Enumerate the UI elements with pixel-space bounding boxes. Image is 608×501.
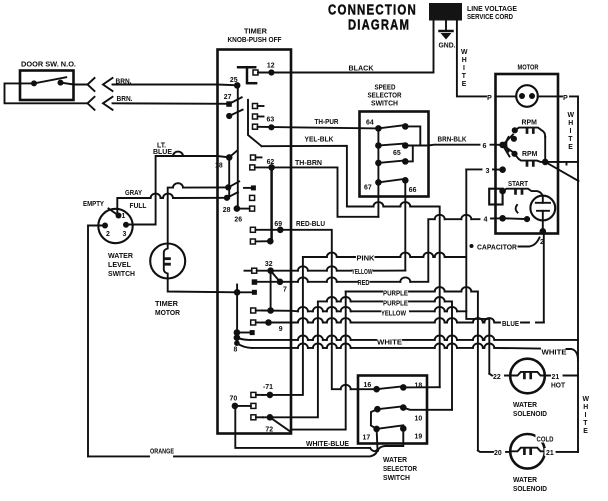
blade y187 [228, 181, 239, 187]
WSS mid-left dot [374, 406, 381, 413]
timer terminal 18 dot [226, 154, 233, 161]
svg-text:W: W [583, 396, 590, 403]
cold solenoid row: 20 lead [478, 451, 510, 452]
white1 hops [298, 335, 308, 339]
dot B3 [402, 158, 409, 165]
tick above dot y292 [236, 285, 238, 290]
svg-text:70: 70 [230, 396, 238, 403]
svg-text:RED: RED [358, 280, 370, 287]
WSS terminal 19 dot [400, 425, 407, 432]
label WATER SOLENOID (cold) [513, 477, 547, 493]
svg-text:21: 21 [552, 374, 560, 381]
WLS terminal 2 [102, 223, 108, 229]
timer terminal 70 dot [232, 403, 239, 410]
timer line bus bar [238, 67, 256, 83]
wire GRAY: WLS terminal 1 to timer (lower) [117, 198, 226, 216]
svg-text:MOTOR: MOTOR [155, 310, 180, 317]
door switch box [20, 71, 74, 101]
wire WHITE 1: timer 8 to right riser [250, 340, 578, 374]
wire 3 row [466, 168, 502, 170]
timer terminal 32 dot [267, 267, 274, 274]
svg-text:TH-PUR: TH-PUR [315, 119, 339, 126]
motor box [496, 74, 559, 234]
timer left column from 25 down [237, 85, 239, 208]
stub 72 [256, 416, 263, 418]
contact square 63 [253, 124, 258, 129]
blade 4 [503, 217, 527, 220]
dot B2 [402, 142, 409, 149]
connector chevron pair row 1 [88, 78, 95, 91]
svg-text:YEL-BLK: YEL-BLK [305, 137, 334, 144]
wire WHITE 2: timer 8 to hot solenoid 21 [252, 348, 578, 360]
svg-text:BLACK: BLACK [349, 66, 374, 73]
wire TH-BRN: timer 62 to A column [291, 167, 378, 216]
svg-text:9: 9 [279, 326, 283, 333]
wire timer motor top to timer (y 187.5) [168, 187, 228, 243]
svg-text:I: I [570, 128, 572, 135]
curve to white wire 2 [237, 343, 252, 348]
WLS terminal digits [106, 213, 127, 238]
timer terminal 63 dot [268, 124, 274, 130]
stub y292.3 [237, 291, 252, 293]
wire RED: timer 7 to motor 4 [291, 218, 503, 281]
hop WSS16 wire over purple1 riser [341, 385, 351, 389]
label LT. BLUE [153, 143, 172, 157]
label SPEED SELECTOR SWITCH [368, 85, 402, 108]
contact square 70 [251, 403, 256, 408]
wire y310.5 row (YELLOW 2 out) [262, 310, 291, 312]
svg-text:7: 7 [283, 287, 287, 294]
ground symbol [440, 21, 453, 40]
wire 62 row (TH-BRN out) [255, 166, 291, 168]
svg-text:63: 63 [267, 117, 275, 124]
timer dot y292.3 [234, 289, 241, 296]
WSS link mid-left to 17 [371, 409, 378, 429]
svg-text:WATER: WATER [108, 253, 133, 260]
cold solenoid right lead [545, 450, 578, 453]
timer terminal 72 dot [267, 414, 274, 421]
svg-text:20: 20 [494, 450, 502, 457]
svg-text:TIMER: TIMER [244, 29, 267, 36]
blade A2-B2 [378, 144, 405, 146]
riser 66 down to yellow wire [404, 180, 406, 270]
timer dot y197.8 [224, 195, 230, 201]
motor terminal 3 dot [499, 166, 506, 173]
wire 9 row (BLUE out) [262, 322, 291, 324]
svg-text:SPEED: SPEED [375, 85, 396, 92]
svg-text:28: 28 [223, 207, 231, 214]
stub y310.5 [256, 310, 262, 312]
blade 32 to 7 [271, 271, 280, 282]
hot solenoid coil [510, 372, 545, 376]
wire RED-BLU: timer 69 down to WSS 16 [291, 230, 377, 389]
svg-text:E: E [462, 81, 467, 88]
hop over lt.blue riser [151, 194, 161, 198]
stub left of 32 square [245, 270, 252, 272]
svg-text:27: 27 [224, 94, 232, 101]
wire junction to white riser [545, 162, 578, 165]
svg-text:1: 1 [122, 213, 126, 220]
contact square y197.9 [250, 195, 255, 200]
WSS blade mid [377, 406, 403, 409]
timer terminal 25 dot [234, 82, 241, 89]
svg-text:16: 16 [364, 382, 372, 389]
svg-text:26: 26 [234, 217, 242, 224]
diagonal junction to riser [545, 162, 578, 181]
svg-text:SOLENOID: SOLENOID [513, 486, 547, 493]
winding junction dot [542, 159, 549, 166]
svg-text:W: W [568, 112, 575, 119]
contact square y281.8 (filled) [252, 279, 258, 285]
svg-text:W: W [461, 49, 468, 56]
connector chevron pair row 2 [88, 97, 95, 110]
svg-text:CAPACITOR: CAPACITOR [477, 245, 517, 252]
svg-text:FULL: FULL [130, 203, 147, 210]
svg-text:18: 18 [415, 383, 423, 390]
contact square y292.3 (filled) [252, 290, 257, 295]
WSS blade 16-18 [377, 386, 404, 389]
timer inner column B (to yel-blk diagonal) [248, 100, 262, 146]
dot B1 [402, 123, 409, 130]
svg-text:BLUE: BLUE [153, 149, 172, 156]
WLS terminal 3 [123, 222, 129, 228]
stub y157 [256, 156, 262, 158]
svg-text:10: 10 [415, 416, 423, 423]
stub y208.6 [240, 208, 250, 210]
svg-text:LINE VOLTAGE: LINE VOLTAGE [467, 6, 517, 13]
start winding coil [503, 189, 543, 197]
svg-text:RPM: RPM [522, 120, 538, 127]
thermal protector circle [516, 85, 538, 107]
water level switch body [98, 209, 132, 243]
blade A3-B3 [378, 160, 405, 163]
wire 69 row (RED-BLU out) [255, 229, 291, 231]
svg-text:BRN.: BRN. [117, 96, 133, 103]
svg-text:72: 72 [265, 427, 273, 434]
wire 63 row (TH-PUR out) [258, 126, 292, 129]
label COLD [536, 435, 555, 444]
svg-text:PURPLE: PURPLE [383, 291, 408, 298]
svg-text:SWITCH: SWITCH [108, 271, 135, 278]
svg-text:P: P [563, 93, 568, 102]
wire 7 row (RED out) [257, 281, 291, 283]
timer dot at y116 [226, 113, 232, 119]
stub 71 [256, 394, 263, 396]
label WATER LEVEL SWITCH [108, 253, 135, 278]
timer dot y337.7 [234, 334, 241, 341]
stub y322.5 [256, 322, 262, 324]
wire PURPLE 2: 72 riser to WSS mid riser [318, 301, 452, 409]
speed selector A column [377, 128, 379, 182]
svg-text:-71: -71 [263, 384, 273, 391]
svg-text:MOTOR: MOTOR [518, 65, 539, 72]
service cord plug (black block) [429, 3, 462, 21]
riser A column down through box [377, 182, 379, 216]
column 62 down [270, 167, 273, 241]
timer dot y343.5 [234, 340, 240, 346]
wire 72 blade path to purple1 riser [291, 292, 346, 432]
contact square y322.5 [251, 320, 256, 325]
door switch contact left [31, 80, 37, 86]
svg-text:DOOR SW. N.O.: DOOR SW. N.O. [21, 62, 76, 69]
contact square y241.5 [250, 239, 255, 244]
centrifugal actuator rect [489, 189, 502, 205]
centrifugal switch blades [503, 135, 514, 157]
contact square 71 [251, 392, 256, 397]
svg-text:21: 21 [546, 450, 554, 457]
svg-text:19: 19 [415, 434, 423, 441]
dot A4 (67) [375, 179, 382, 186]
svg-text:8: 8 [234, 347, 238, 354]
blade 27 [229, 97, 242, 104]
svg-text:SELECTOR: SELECTOR [383, 466, 417, 473]
svg-text:WATER: WATER [383, 457, 407, 464]
svg-text:SOLENOID: SOLENOID [513, 411, 547, 418]
contact square 72 [251, 415, 256, 420]
svg-text:BRN-BLK: BRN-BLK [438, 137, 467, 144]
timer dot y332.5 [234, 329, 241, 336]
purple2 hops [327, 297, 337, 301]
svg-text:66: 66 [409, 187, 417, 194]
column 32 down [270, 271, 272, 311]
timer contact square 12 [253, 70, 258, 75]
wire TH-PUR: timer 63 to 64 [291, 127, 378, 128]
wire y241.5 row [255, 240, 270, 242]
capacitor circle [530, 196, 555, 221]
svg-text:65: 65 [393, 150, 401, 157]
contact square y332.5 (filled) [250, 330, 255, 335]
svg-text:TH-BRN: TH-BRN [295, 160, 322, 167]
svg-text:SWITCH: SWITCH [383, 475, 410, 482]
svg-text:HOT: HOT [551, 383, 566, 390]
contact square 62 [250, 165, 255, 170]
blade 4 end dot [524, 216, 530, 222]
wire 70 down to white-blue [235, 406, 370, 448]
terminal 64 dot [375, 125, 382, 132]
stub y106 [258, 105, 264, 107]
svg-text:EMPTY: EMPTY [83, 201, 104, 208]
svg-text:BRN.: BRN. [116, 79, 132, 86]
capacitor plates [536, 203, 550, 211]
wire BRN. row 1 to timer 25 [113, 84, 238, 87]
svg-text:P: P [487, 93, 492, 102]
column 18 down [228, 157, 230, 198]
svg-text:SERVICE CORD: SERVICE CORD [467, 14, 513, 21]
stub 70 [235, 405, 251, 407]
svg-text:WATER: WATER [513, 402, 537, 409]
svg-text:WATER: WATER [513, 477, 537, 484]
blade 64 [378, 125, 405, 128]
svg-text:I: I [585, 412, 587, 419]
wire ORANGE: WLS 2 to water selector [88, 449, 378, 456]
lower winding coil [515, 154, 546, 162]
dot A3 [375, 160, 382, 167]
svg-text:64: 64 [366, 120, 374, 127]
white2 hops [298, 343, 308, 347]
wire WLS terminal 2 to orange run [88, 226, 105, 457]
timer dot y310.5 [267, 307, 274, 314]
timer terminal 7 dot [277, 279, 284, 286]
svg-text:WHITE-BLUE: WHITE-BLUE [306, 441, 349, 448]
door switch blade [34, 77, 66, 83]
hop yel-blk over 66 riser [400, 202, 410, 206]
blade 18 [229, 151, 237, 158]
wire timer motor bottom to timer contact [168, 279, 237, 293]
svg-text:WHITE: WHITE [542, 350, 567, 357]
timer terminal 12 dot [268, 69, 274, 75]
WSS terminal 18 dot [400, 384, 407, 391]
cold solenoid circle [510, 434, 545, 469]
timer contact square 27 (filled) [226, 101, 232, 107]
blade y197.8 [227, 192, 238, 198]
timer terminal 62 dot [268, 164, 275, 171]
wire WSS 18 out to yel-blk riser [403, 386, 439, 388]
speed selector box [360, 112, 429, 197]
dot B4 (66) [402, 177, 409, 184]
wire BLUE: timer 9 to motor 2 riser [291, 322, 544, 324]
svg-text:6: 6 [483, 141, 487, 150]
svg-text:SWITCH: SWITCH [371, 101, 398, 108]
svg-text:BLUE: BLUE [502, 321, 519, 328]
hot solenoid row: 22 lead [489, 374, 510, 376]
WSS terminal 17 dot [373, 426, 380, 433]
stub y332.5 [237, 332, 250, 334]
svg-text:H: H [568, 120, 573, 127]
wire WHITE-BLUE dip to WSS 17 [370, 448, 378, 451]
contact square 69 [250, 227, 255, 232]
svg-text:E: E [583, 428, 588, 435]
connector bump on 187 wire [173, 183, 183, 187]
connector bump on LT.BLUE wire [173, 152, 183, 156]
upper winding right link down to junction [544, 137, 546, 162]
svg-text:12: 12 [267, 63, 275, 70]
svg-text:GRAY: GRAY [125, 190, 142, 197]
timer motor body [150, 244, 185, 279]
contact square y116.5 [253, 114, 258, 119]
WSS blade 17-19 [377, 425, 404, 429]
wire WSS mid out to purple2 riser [403, 408, 452, 410]
wire door switch right to connector [61, 83, 88, 85]
stub y187.9 [244, 187, 251, 189]
svg-text:LEVEL: LEVEL [108, 262, 131, 269]
svg-text:E: E [568, 144, 573, 151]
WLS blade from terminal 1 [109, 209, 119, 216]
capacitor bottom terminal dot [540, 228, 547, 235]
blade 72 to corner [270, 417, 291, 432]
yellow2 hops [298, 307, 308, 311]
svg-text:WHITE: WHITE [377, 339, 402, 346]
label WHITE (vertical, service) [461, 49, 468, 88]
svg-text:ORANGE: ORANGE [150, 449, 174, 456]
WSS mid-right dot [400, 404, 407, 411]
blade 4 hook [516, 205, 518, 213]
label LINE VOLTAGE SERVICE CORD [467, 6, 517, 21]
wire 32 row (YELLOW out) [257, 270, 291, 272]
upper winding coil [515, 128, 545, 137]
label WHITE (vertical, solenoid right) [583, 396, 590, 435]
timer motor coil [164, 244, 168, 279]
dot A2 [375, 142, 382, 149]
svg-text:YELLOW: YELLOW [352, 269, 373, 276]
purple1 hops [435, 287, 445, 291]
stub y116.5 [258, 116, 264, 118]
blade 67 [378, 179, 405, 183]
wire BRN-BLK: speed selector out to motor 6 [405, 144, 502, 147]
svg-text:18: 18 [215, 163, 223, 170]
wire WHITE: plug down to motor P [457, 21, 486, 96]
capacitor stub bottom [542, 211, 544, 232]
svg-text:RED-BLU: RED-BLU [296, 221, 325, 228]
svg-text:PINK: PINK [357, 256, 375, 263]
svg-text:GND.: GND. [439, 41, 456, 50]
centrifugal switch arc [506, 137, 508, 152]
thermal protector dots [519, 93, 525, 99]
svg-text:H: H [462, 57, 467, 64]
timer box [218, 50, 292, 434]
wire YELLOW 2: timer to hot solenoid riser [291, 311, 489, 374]
lower winding left dot [511, 151, 517, 157]
motor terminal 6 dot [499, 142, 506, 149]
label TIMER KNOB-PUSH OFF [228, 29, 282, 45]
contact square y310.5 [251, 308, 256, 313]
svg-text:17: 17 [363, 435, 371, 442]
wire YEL-BLK: timer to motor-18 riser [262, 146, 440, 387]
white riser solenoid section [577, 376, 579, 452]
pink hops [327, 253, 337, 257]
svg-text:I: I [463, 65, 465, 72]
label TIMER MOTOR [155, 301, 180, 317]
timer dot y187.4 [225, 184, 231, 190]
svg-text:3: 3 [486, 166, 490, 175]
blue hops [298, 318, 308, 322]
wire door switch loop left side [5, 83, 88, 103]
label CAPACITOR with bullet [470, 238, 540, 252]
wire BRN. row 2 to timer 27 [113, 102, 229, 105]
red hops [298, 277, 308, 281]
wire 12 row [258, 72, 291, 74]
svg-text:CONNECTION: CONNECTION [328, 3, 417, 19]
title CONNECTION DIAGRAM [328, 3, 417, 34]
WSS terminal 16 dot [373, 386, 380, 393]
label WATER SOLENOID (hot) [513, 402, 547, 418]
upper winding left dot [512, 127, 518, 133]
svg-text:2: 2 [540, 237, 544, 246]
blade at y116 [229, 110, 242, 116]
motor terminal 4 dot [499, 215, 506, 222]
svg-text:YELLOW: YELLOW [381, 310, 406, 317]
riser 17 down to white-blue [376, 429, 379, 450]
curve to white wire 1 [237, 338, 250, 340]
svg-text:START: START [508, 181, 529, 188]
wire 71 row to pink riser [263, 257, 303, 395]
water selector box [358, 376, 427, 444]
contact square y157 [251, 155, 256, 160]
svg-text:DIAGRAM: DIAGRAM [348, 18, 410, 34]
wire motor P right to white riser [558, 96, 578, 340]
wire BLACK: timer 12 to plug [291, 21, 434, 73]
wire motor 2 riser (blue to capacitor) [543, 231, 545, 322]
svg-text:4: 4 [484, 215, 488, 224]
wire YELLOW: timer 32 to 66 riser [291, 270, 405, 272]
svg-text:SELECTOR: SELECTOR [368, 93, 402, 100]
wire LT.BLUE: WLS terminal 3 up and right to timer 18 [126, 156, 229, 225]
timer terminal 69 dot [277, 227, 284, 234]
red (motor4 row) hops [435, 215, 445, 219]
thermal protector leads [496, 95, 559, 97]
link B2 to B3 [405, 146, 413, 162]
timer dot 9 [265, 319, 272, 326]
svg-text:PURPLE: PURPLE [383, 301, 408, 308]
